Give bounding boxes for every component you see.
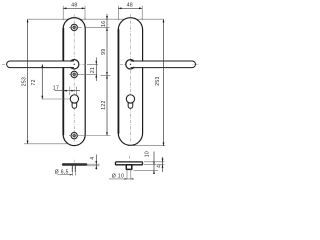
svg-text:21: 21 bbox=[90, 67, 96, 73]
svg-text:4: 4 bbox=[156, 165, 162, 168]
svg-text:48: 48 bbox=[71, 3, 77, 9]
svg-text:253: 253 bbox=[22, 77, 28, 86]
svg-text:10: 10 bbox=[145, 151, 151, 157]
svg-text:Ø 10: Ø 10 bbox=[112, 174, 124, 180]
svg-text:72: 72 bbox=[31, 79, 37, 85]
svg-text:16: 16 bbox=[101, 21, 107, 27]
svg-text:99: 99 bbox=[101, 48, 107, 54]
svg-text:48: 48 bbox=[127, 3, 133, 9]
svg-text:Ø 6,5: Ø 6,5 bbox=[55, 170, 69, 176]
svg-text:122: 122 bbox=[101, 100, 107, 109]
svg-text:253: 253 bbox=[155, 76, 161, 85]
svg-text:17: 17 bbox=[53, 86, 59, 92]
svg-text:4: 4 bbox=[90, 157, 96, 160]
